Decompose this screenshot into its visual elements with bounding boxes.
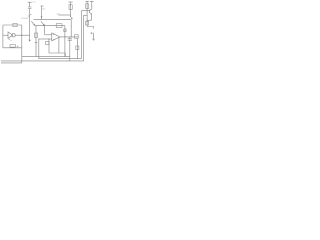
wire B horizontal y=25.6 — [35, 25, 65, 27]
transistor Q2 emitter diag arrow — [90, 12, 92, 14]
transistor Q2 bar — [88, 10, 90, 13]
wire left edge x=2.9 — [2, 25, 4, 48]
resistor R6 vertical on x=36 — [35, 33, 38, 37]
transistor Q1 base wire — [59, 14, 71, 16]
node junction dot x=21.8 output — [21, 35, 22, 36]
node dot minus wire — [37, 38, 40, 41]
resistor R4 — [86, 4, 89, 9]
resistor R3 collector — [69, 5, 72, 10]
node dot base/rail crossing — [86, 9, 89, 12]
capacitor C1 plates — [28, 7, 32, 9]
wire A horizontal y=19.7 — [34, 19, 72, 21]
output line with arrow — [93, 33, 95, 40]
resistor R10 feedback — [46, 41, 49, 44]
op-amp U1 input wire — [3, 34, 8, 36]
transistor Q2 supply T-bar right — [90, 0, 94, 2]
capacitor C2 plates — [68, 39, 72, 40]
oscillator circle on U1 output — [12, 34, 15, 37]
transistor Q2 collector diag — [90, 9, 92, 11]
op-amp U2 plus minus — [53, 34, 54, 40]
wire L4 y=60.9 — [1, 60, 84, 62]
arrow marker into wire B mid — [41, 21, 45, 25]
transistor Q1 emitter with arrow — [70, 16, 72, 19]
wire vertical x=36 from wire B down to L2 — [35, 26, 37, 57]
wire rail x=87.1 — [86, 1, 88, 26]
transistor Q1 bar — [69, 14, 71, 17]
resistor R2 above bottom wire — [10, 44, 15, 47]
resistor R7 on output wire — [75, 35, 79, 39]
svg-text:1N4148: 1N4148 — [21, 18, 29, 20]
wire V2 down x=81.5 — [81, 11, 83, 59]
wire V3 top bend — [84, 14, 88, 16]
transistor Q2 supply T-bar left — [85, 0, 89, 2]
arrow input marker into wire B left end — [31, 21, 35, 25]
wire L1 y=53 — [49, 52, 65, 54]
wire rail x=91.8 — [91, 1, 93, 9]
wire supply rail vertical x=29.7 — [29, 2, 31, 7]
wire U1 output to rails — [15, 34, 30, 36]
node dot rail 87.1 — [86, 19, 89, 22]
node junction dot on rail x=41.6 — [41, 16, 42, 17]
wire output feedback down x=59.3 — [58, 37, 60, 53]
svg-text:2k2: 2k2 — [42, 8, 45, 10]
wire vertical x=44.7 from B to opamp + input — [44, 26, 46, 35]
wire L3 y=58.7 — [39, 58, 82, 60]
resistor R9 on rail 87.1 — [86, 21, 89, 25]
op-amp U2 - input wire y=39 — [39, 38, 52, 40]
resistor R5 on wire B — [56, 24, 62, 28]
wire L1 corner down — [64, 53, 66, 57]
capacitor C2 bottom lead down to L4 — [69, 40, 71, 61]
node dot at cap junction — [68, 35, 71, 38]
left feedback box: top wire y=25 — [3, 24, 22, 26]
svg-text:10k: 10k — [57, 13, 60, 15]
wire bend to output — [87, 27, 93, 29]
output arrow head — [93, 39, 95, 41]
wire Q1 collector rail — [70, 2, 72, 14]
wire emitter to rail y=20.2 — [87, 19, 91, 21]
node dot R10 top — [49, 39, 50, 40]
wire L2 y=56.6 — [22, 56, 70, 58]
battery tick left — [28, 15, 30, 17]
component small box on x=64.9 — [64, 29, 66, 32]
resistor R8 on V1 — [76, 46, 79, 50]
node junction dot B/x44.7 — [44, 25, 45, 26]
supply rail V2 top bar — [41, 5, 44, 7]
wire Q2 base y=10.7 — [82, 10, 90, 12]
arrow head at bottom of rail — [29, 40, 31, 42]
supply rail V+ left (top bar) — [28, 1, 32, 3]
wire vertical x=38.8 down to L3 — [38, 39, 40, 59]
wire U2 output y=36.9 — [60, 36, 78, 38]
wire vertical x=64.9 from B down to L1 corner — [64, 26, 66, 57]
plus label — [90, 32, 92, 34]
node dot output tip — [64, 36, 65, 37]
svg-text:+15: +15 — [32, 1, 35, 3]
capacitor C2 top lead — [69, 37, 71, 39]
node dot at vertical junction — [70, 35, 73, 38]
wire rail below C1 down to arrow end — [29, 9, 31, 42]
wire rail vertical x=41.6 — [41, 6, 43, 20]
wire Q2 emitter down x=91.5 — [91, 14, 93, 20]
wire tick at x=36 y=42.5 — [35, 42, 38, 44]
wire vertical from A down to output node x=71.2 — [70, 20, 72, 37]
battery tick right — [30, 13, 32, 15]
wire V1 from R7 down — [76, 39, 78, 59]
node dot on vertical — [70, 25, 73, 28]
wire L5 y=63.1 — [1, 62, 22, 64]
transistor Q1 supply T-bar — [69, 1, 73, 3]
junction plus mark on bottom wire — [17, 46, 19, 48]
wire right edge x=21.8 — [21, 25, 23, 63]
op-amp U1 triangle — [8, 32, 13, 39]
wire R10 top lead — [48, 39, 50, 53]
wire V3 down x=83.6 — [83, 15, 85, 61]
op-amp U2 triangle — [52, 33, 60, 41]
op-amp U2 + input wire y=34.8 — [45, 34, 52, 36]
wire bottom edge y=47.8 — [3, 47, 22, 49]
U1 tiny input labels — [9, 39, 12, 41]
resistor R1 on top wire — [13, 23, 17, 26]
